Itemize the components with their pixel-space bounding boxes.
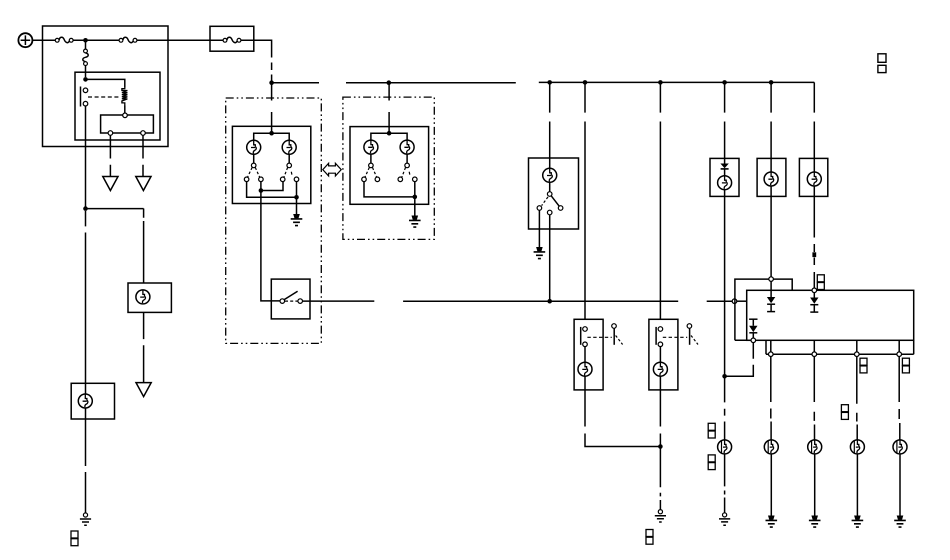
terminal bbox=[583, 342, 588, 347]
connector squares bbox=[71, 531, 78, 546]
fuse F2 bbox=[119, 37, 137, 42]
wire t1 to bulb 2 bbox=[770, 357, 772, 440]
node bbox=[722, 80, 727, 85]
terminal: sub box left bbox=[108, 131, 113, 136]
headlight LH low bulb bbox=[282, 140, 296, 154]
enclosure (dash-dot) RH bbox=[343, 97, 434, 239]
ground arrow right bbox=[136, 177, 151, 191]
block B outline bbox=[747, 290, 914, 340]
ground arrow bbox=[136, 383, 151, 397]
node bbox=[269, 131, 274, 136]
node D bbox=[294, 195, 299, 200]
wire F2 to fuse box bbox=[137, 39, 223, 41]
terminal bbox=[658, 327, 663, 332]
node B bbox=[259, 188, 264, 193]
lamp-switch unit box bbox=[529, 158, 579, 229]
wire break and lamp 1 bbox=[724, 409, 726, 440]
armature bar bbox=[655, 327, 657, 345]
node: tail branch junction bbox=[83, 206, 88, 211]
terminal common right bbox=[405, 163, 410, 168]
dashed blade bbox=[248, 168, 253, 178]
lamp L2 bbox=[136, 290, 150, 304]
junction block outer box bbox=[43, 26, 169, 147]
wire A-D link bbox=[247, 182, 297, 214]
dashed relay link bbox=[88, 96, 121, 98]
wire lamp tee bbox=[254, 133, 290, 140]
bulb 2 bbox=[764, 440, 778, 454]
wire B down to dimmer switch bbox=[261, 191, 280, 301]
wire below relay 2 bbox=[659, 376, 661, 509]
terminal common left bbox=[369, 163, 374, 168]
relay sub box bbox=[101, 115, 154, 133]
terminal bbox=[583, 327, 588, 332]
node: dimmer feed tap bbox=[547, 299, 552, 304]
node: main feed junction bbox=[83, 38, 88, 43]
wire t2 to bulb 3 bbox=[813, 357, 815, 440]
terminal 1 bbox=[362, 177, 367, 182]
dashed blade stub bbox=[408, 172, 411, 175]
node bbox=[658, 80, 663, 85]
dashed actuator link bbox=[587, 336, 611, 338]
bulb 3 bbox=[808, 440, 822, 454]
ground (circle type) bbox=[719, 513, 730, 525]
wire bulb to common bbox=[406, 154, 408, 163]
lamp box lower left bbox=[71, 383, 114, 419]
ground RH unit bbox=[409, 216, 421, 228]
dashed switch throw bbox=[616, 336, 623, 345]
ground arrow left bbox=[103, 177, 118, 191]
headlight RH box bbox=[350, 127, 429, 205]
external switch blade bbox=[613, 328, 615, 345]
indicator bulb bbox=[543, 168, 557, 182]
terminal D bbox=[294, 177, 299, 182]
lamp box 3 bbox=[799, 158, 827, 196]
dashed actuator link bbox=[663, 336, 687, 338]
swap arrow symbol bbox=[323, 163, 341, 176]
block A outline bbox=[735, 279, 792, 340]
terminal common right bbox=[287, 163, 292, 168]
terminal bbox=[658, 342, 663, 347]
terminal t4 bbox=[897, 352, 902, 357]
switch wire from dimmer to junction block bbox=[302, 300, 732, 302]
connector squares top right bbox=[878, 54, 886, 73]
dashed wire to arrow ground bbox=[143, 312, 145, 382]
wire to bulb bbox=[659, 347, 661, 363]
fusible link F1 bbox=[55, 37, 73, 42]
wire below relay 1 bbox=[585, 376, 660, 446]
ground (circle type) bbox=[80, 513, 91, 525]
terminal into block A bbox=[769, 277, 774, 282]
ground bbox=[766, 516, 778, 528]
dashed blade bbox=[373, 168, 377, 178]
ground bbox=[894, 516, 906, 528]
connector squares bbox=[708, 455, 715, 470]
battery positive terminal bbox=[18, 33, 32, 47]
wire bus to relay 1 bbox=[584, 82, 586, 319]
wire junction to coil bbox=[86, 79, 125, 88]
node bbox=[769, 80, 774, 85]
fusible link vertical bbox=[83, 41, 88, 77]
wire bulb 5 to ground bbox=[899, 454, 901, 516]
terminal diode 3 out bbox=[751, 338, 756, 343]
wire diode to bulb bbox=[724, 169, 726, 176]
bulb 5 bbox=[893, 440, 907, 454]
terminal common bbox=[547, 192, 552, 197]
relay armature contacts bbox=[81, 87, 88, 107]
dashed blade stub bbox=[290, 172, 293, 175]
dashed blade bbox=[255, 168, 259, 178]
diode bbox=[720, 164, 728, 169]
bus wire left segments bbox=[272, 82, 516, 84]
wire below with breaks bbox=[813, 186, 815, 288]
bus wire right bbox=[539, 81, 815, 83]
connector squares bbox=[646, 530, 653, 545]
dashed blade bbox=[284, 168, 288, 178]
wire down to junction bbox=[724, 190, 726, 403]
terminal t2 bbox=[812, 352, 817, 357]
ground bbox=[809, 516, 821, 528]
dashed closed position bbox=[285, 300, 298, 302]
external switch terminal bbox=[612, 324, 617, 329]
connector squares bbox=[817, 275, 824, 290]
splice bead bbox=[812, 252, 816, 257]
node join bbox=[658, 444, 663, 449]
node bbox=[547, 80, 552, 85]
bulb with diode bbox=[718, 176, 732, 190]
node bbox=[387, 131, 392, 136]
terminal C bbox=[280, 177, 285, 182]
terminal 2 bbox=[375, 177, 380, 182]
lamp L1 bbox=[78, 394, 92, 408]
wire down with break bbox=[85, 211, 87, 513]
wire bus to relay 2 bbox=[659, 82, 661, 319]
relay inner box bbox=[75, 72, 160, 140]
bulb 4 bbox=[850, 440, 864, 454]
ground bbox=[852, 516, 864, 528]
dashed blade bbox=[402, 168, 406, 178]
terminal B bbox=[259, 177, 264, 182]
wire bulb to common bbox=[370, 154, 372, 163]
external switch blade bbox=[689, 328, 691, 345]
wire stub from lamp-switch unit bbox=[549, 215, 551, 301]
node bbox=[583, 80, 588, 85]
terminal into block B bbox=[812, 288, 817, 293]
ground bbox=[534, 247, 546, 259]
wire join to diode 3 bbox=[725, 343, 754, 377]
enclosure (dash-dot) LH bbox=[226, 98, 322, 343]
fuse F3 bbox=[223, 37, 241, 42]
terminal common left bbox=[251, 163, 256, 168]
dashed switch throw bbox=[691, 336, 698, 345]
wire to bulb bbox=[584, 347, 586, 363]
wire bulb to switch bbox=[549, 182, 551, 191]
relay 1 bulb bbox=[578, 362, 592, 376]
wire relay output down bbox=[85, 106, 87, 209]
diode lamp box bbox=[710, 158, 739, 196]
wire bulb 2 to ground bbox=[770, 454, 772, 516]
wire B-C link bbox=[261, 182, 283, 191]
wire to ground arrow left bbox=[109, 135, 111, 176]
terminal 4 bbox=[413, 177, 418, 182]
headlight LH box bbox=[232, 126, 310, 203]
wire bus to diode lamp box bbox=[724, 82, 726, 163]
bulb bbox=[764, 172, 778, 186]
lamp box mid left bbox=[128, 283, 171, 312]
wire bulb 4 to ground bbox=[856, 454, 858, 516]
terminal: coil output bbox=[123, 113, 128, 118]
terminal right bbox=[558, 206, 563, 211]
connector squares bbox=[841, 405, 848, 420]
terminal t3 bbox=[855, 352, 860, 357]
switch blade bbox=[284, 291, 297, 299]
terminal A bbox=[244, 177, 249, 182]
wire 1-4 link bbox=[364, 182, 415, 216]
diode D1 bbox=[767, 281, 775, 311]
terminal 3 bbox=[398, 177, 403, 182]
diode D2 bbox=[810, 293, 818, 313]
switch blade bbox=[551, 196, 559, 206]
wire branch to right bbox=[86, 208, 144, 210]
wire to ground bbox=[538, 210, 540, 247]
terminal in bbox=[280, 299, 285, 304]
wire F1 to F2 bbox=[73, 39, 119, 41]
node 4 bbox=[413, 195, 418, 200]
wire feed into LH unit bbox=[271, 83, 273, 134]
wire t4 to bulb 5 bbox=[898, 357, 901, 440]
ground (circle type) bbox=[655, 510, 666, 522]
wire inside block A bbox=[737, 300, 747, 302]
connector squares bbox=[708, 423, 715, 438]
dashed position bbox=[542, 197, 548, 206]
node: relay feed junction bbox=[83, 77, 88, 82]
connector squares bbox=[860, 358, 867, 373]
wire bus to unit bbox=[549, 82, 551, 168]
wire bus corner to lamp box 3 bbox=[813, 82, 815, 172]
terminal bottom bbox=[547, 210, 552, 215]
fuse box bbox=[210, 26, 254, 51]
wire feed into RH unit bbox=[388, 83, 390, 134]
bulb bbox=[807, 172, 821, 186]
dashed blade bbox=[365, 168, 369, 178]
bulb 1 bbox=[718, 440, 732, 454]
terminal t1 bbox=[769, 352, 774, 357]
terminal left bbox=[537, 206, 542, 211]
wire F3 to corner down bbox=[241, 40, 272, 82]
wire lamp tee bbox=[371, 133, 407, 140]
relay unit 1 box bbox=[574, 319, 603, 390]
ground LH unit bbox=[291, 214, 303, 226]
terminal row frame bbox=[766, 340, 914, 354]
diode D3 bbox=[749, 319, 757, 338]
wire t3 to bulb 4 bbox=[856, 357, 858, 440]
wire bus to lamp box 2 bbox=[770, 82, 772, 172]
node: diode return join bbox=[722, 374, 727, 379]
wire bulb 1 to ground bbox=[724, 454, 726, 513]
node: bus corner bbox=[269, 80, 274, 85]
relay coil bbox=[122, 88, 128, 106]
external switch terminal bbox=[687, 324, 692, 329]
headlight LH high bulb bbox=[247, 140, 261, 154]
wire bulb to common bbox=[253, 154, 255, 163]
wire battery to fuse bbox=[32, 39, 55, 41]
relay 2 bulb bbox=[653, 362, 667, 376]
armature bar bbox=[580, 327, 582, 345]
terminal out bbox=[298, 299, 303, 304]
node bus bbox=[387, 80, 392, 85]
connector squares bbox=[902, 358, 909, 373]
dashed wire to lamp box bbox=[143, 209, 145, 284]
terminal into junction block bbox=[732, 299, 737, 304]
wire bulb 3 to ground bbox=[814, 454, 816, 516]
terminal: sub box right bbox=[141, 131, 146, 136]
wire to ground arrow right bbox=[142, 135, 144, 176]
headlight RH low bulb bbox=[400, 140, 414, 154]
wire to junction block bbox=[770, 186, 772, 277]
relay unit 2 box bbox=[649, 319, 678, 390]
wire coil to terminal bbox=[124, 106, 126, 114]
lamp box 2 bbox=[757, 158, 786, 196]
headlight RH high bulb bbox=[364, 140, 378, 154]
dimmer switch box bbox=[271, 279, 310, 319]
wire bulb to common bbox=[288, 154, 290, 163]
